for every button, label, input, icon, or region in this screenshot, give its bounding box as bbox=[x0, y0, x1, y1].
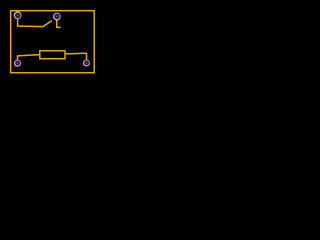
switch blade SW1 bbox=[43, 21, 52, 27]
border frame bbox=[11, 11, 95, 73]
wire stub from switch terminal B down bbox=[56, 20, 58, 28]
terminal B (switch right) bbox=[54, 13, 61, 20]
wire bottom-left corner to resistor bbox=[18, 55, 40, 56]
terminal D (resistor right) bbox=[84, 60, 90, 66]
wire stub from switch terminal A down bbox=[17, 19, 19, 27]
terminal C (resistor left) bbox=[15, 60, 21, 66]
background bbox=[0, 0, 103, 80]
terminal A (switch left) bbox=[14, 12, 21, 19]
wire resistor to right corner bbox=[65, 52, 86, 55]
wire right corner down to terminal D bbox=[86, 53, 88, 60]
resistor R1 body bbox=[40, 51, 65, 59]
wire stub from resistor terminal C up bbox=[17, 55, 19, 60]
wire switch left horizontal bbox=[17, 25, 43, 28]
wire short stub right of terminal B bbox=[56, 26, 61, 28]
